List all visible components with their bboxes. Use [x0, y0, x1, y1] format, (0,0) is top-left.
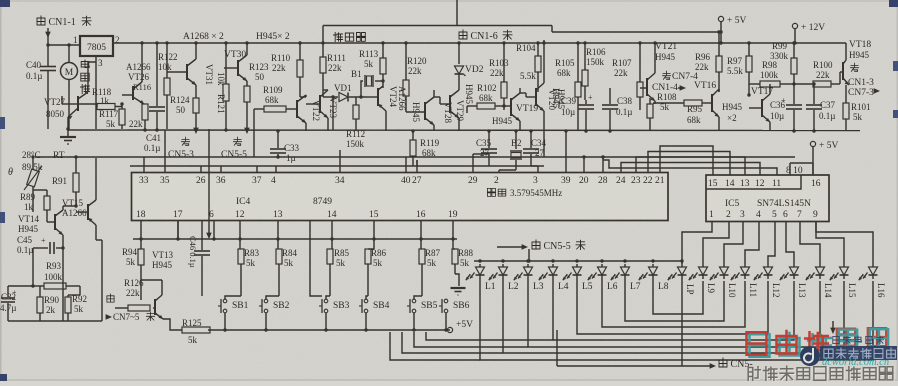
- LED L13: [793, 264, 795, 267]
- main top rail +5V/+12V: [113, 42, 846, 44]
- LED L7: [623, 259, 626, 262]
- IC5 inner wire: [706, 175, 801, 189]
- wire crossing IC4: [208, 129, 210, 233]
- watermark small navy text: [833, 336, 839, 343]
- regulator U 7805: [80, 36, 113, 56]
- wire 7805 pin3 down to ground rail: [95, 56, 97, 129]
- keys bus rail: [133, 238, 457, 240]
- LED matrix nested wires: [480, 279, 873, 360]
- wire stub top edge: [456, 0, 458, 26]
- LED anode rail: [474, 260, 682, 262]
- wire rail to +5V: [552, 31, 721, 33]
- LED L16: [872, 264, 874, 267]
- pushbutton SB6: [452, 239, 454, 249]
- mid ground rail: [68, 129, 860, 132]
- LED L10: [723, 264, 725, 267]
- wire LP down: [681, 279, 683, 366]
- IC U IC4 8749: [132, 173, 669, 221]
- scan border shading: [0, 0, 898, 2]
- wire +5V to pin16: [812, 163, 814, 175]
- wire CN5-5 drop: [528, 249, 530, 261]
- LED L1: [478, 259, 481, 262]
- scan artifact marks: [0, 0, 10, 7]
- node label CN7-4: [663, 71, 671, 79]
- LED L15: [843, 264, 845, 267]
- ground at VT27 emitter: [66, 127, 69, 130]
- motor M1: [68, 45, 70, 62]
- terminal +12V: [792, 23, 797, 28]
- pushbutton SB4: [373, 239, 375, 249]
- arrow to CN5-5: [244, 128, 250, 134]
- terminal +5V keys: [447, 327, 452, 332]
- node label CN5-5: [233, 137, 241, 145]
- bottom rail left: [8, 320, 102, 322]
- IC4 top pin stubs: [143, 166, 145, 173]
- pushbutton SB2: [277, 239, 279, 249]
- label buzzer: [334, 33, 343, 42]
- node labels CN1-3 CN7-3: [851, 63, 859, 71]
- pushbutton SB3: [331, 239, 333, 249]
- terminal +5V top: [718, 16, 723, 21]
- motor label: [81, 60, 89, 68]
- wire to 7805 pin1: [48, 44, 80, 46]
- wire CN1-1 down: [47, 28, 49, 64]
- LED L6: [600, 259, 603, 262]
- LED L2: [501, 259, 504, 262]
- arrow to CN5-3: [193, 128, 199, 134]
- label CN5-5 feed: [497, 246, 523, 248]
- wire IC4 to SB3: [310, 221, 322, 296]
- node label CN1-1 input: [37, 16, 45, 25]
- pushbutton SB5: [420, 239, 422, 249]
- LED L12: [767, 264, 769, 267]
- watermark dark logo box: [820, 346, 897, 360]
- arrow into watermark: [832, 321, 834, 328]
- keys +5V rail: [208, 329, 450, 331]
- buzzer supply rail: [323, 25, 552, 27]
- node label CN5-4 bottom: [557, 365, 711, 367]
- LED L14: [819, 264, 821, 267]
- capacitor C41: [156, 43, 158, 106]
- LED L9: [702, 264, 704, 267]
- terminal +5V right: [810, 141, 815, 146]
- mid bus wire A: [35, 156, 795, 158]
- mid bus wire B: [130, 165, 544, 167]
- IC4 bottom pin stubs: [140, 221, 142, 240]
- watermark grey big characters: [749, 368, 761, 381]
- LED L5: [575, 259, 578, 262]
- ground near R88: [454, 264, 456, 274]
- bus wires IC4 to IC5: [660, 146, 713, 175]
- LED matrix left extensions: [390, 332, 480, 360]
- LED L11: [744, 264, 746, 267]
- wire VT18 collector drop: [845, 43, 847, 60]
- label CN1-6 input: [459, 30, 467, 39]
- pushbutton SB1: [239, 239, 241, 249]
- wire crossing IC4 redraw: [208, 172, 210, 221]
- LED L8: [651, 259, 654, 262]
- LED LP: [680, 259, 683, 262]
- crystal label: [487, 188, 495, 196]
- IC5 pin fanout wires: [682, 221, 712, 264]
- LED L4: [551, 259, 554, 262]
- LED L3: [526, 259, 529, 262]
- watermark red characters: [750, 334, 770, 357]
- node label CN5-3: [181, 137, 189, 145]
- IC U IC5 SN74LS145N: [706, 175, 829, 222]
- node label CN7-5 input: [107, 294, 114, 302]
- wire bus left drop: [543, 120, 545, 157]
